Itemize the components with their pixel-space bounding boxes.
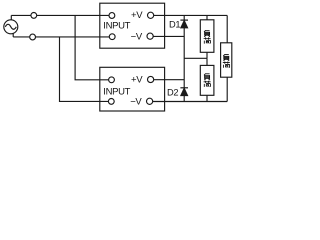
diode D1 — [180, 20, 188, 28]
wire mid link to loads — [184, 57, 207, 59]
svg-text:+V: +V — [131, 75, 143, 86]
diode D2 — [180, 88, 188, 96]
terminal connector top — [31, 13, 37, 19]
terminal connector bottom — [30, 34, 36, 40]
terminal U1 -V — [147, 33, 153, 39]
terminal U2 +V — [148, 76, 154, 82]
load box L1 — [200, 20, 214, 53]
terminal U2 -V — [147, 98, 153, 104]
terminal U2 in- — [108, 99, 114, 105]
wire load1 top stub — [206, 15, 208, 19]
wire tap to INPUT2 plus — [75, 15, 109, 79]
svg-text:INPUT: INPUT — [103, 21, 130, 32]
terminal U1 in+ — [109, 13, 115, 19]
svg-text:D2: D2 — [167, 87, 178, 97]
terminal U2 in+ — [109, 77, 115, 83]
svg-text:D1: D1 — [169, 19, 180, 29]
wire U2 -V output to bottom rail — [153, 101, 228, 103]
AC source V1 — [4, 15, 18, 37]
svg-text:+V: +V — [131, 10, 143, 21]
power supply box U2 — [100, 67, 165, 111]
load box L2 — [200, 65, 214, 95]
label load L1 kanji fuka — [204, 30, 211, 43]
wire load3 top riser — [226, 15, 228, 42]
wire bottom AC line to INPUT1 — [13, 36, 109, 38]
wire load2 top stub — [206, 58, 208, 65]
terminal U1 +V — [148, 12, 154, 18]
wire top AC line to INPUT1 — [11, 14, 108, 16]
load box L3 — [221, 43, 232, 77]
svg-text:−V: −V — [131, 31, 143, 42]
wire U1 +V output — [154, 14, 227, 16]
wire load2 bottom stub — [206, 95, 208, 101]
label load L3 kanji fuka — [223, 54, 230, 67]
svg-text:−V: −V — [130, 96, 142, 107]
svg-text:INPUT: INPUT — [103, 86, 130, 97]
wire load3 bottom riser — [226, 77, 228, 101]
power supply box U1 — [100, 3, 165, 48]
wire U2 +V output — [154, 79, 184, 81]
wire U1 -V output — [153, 35, 184, 37]
wire load1 bottom stub — [206, 52, 208, 58]
wire tap to INPUT2 minus — [60, 37, 109, 102]
label load L2 kanji fuka — [204, 74, 211, 87]
terminal U1 in- — [109, 34, 115, 40]
wire backbone vertical node — [183, 15, 185, 101]
